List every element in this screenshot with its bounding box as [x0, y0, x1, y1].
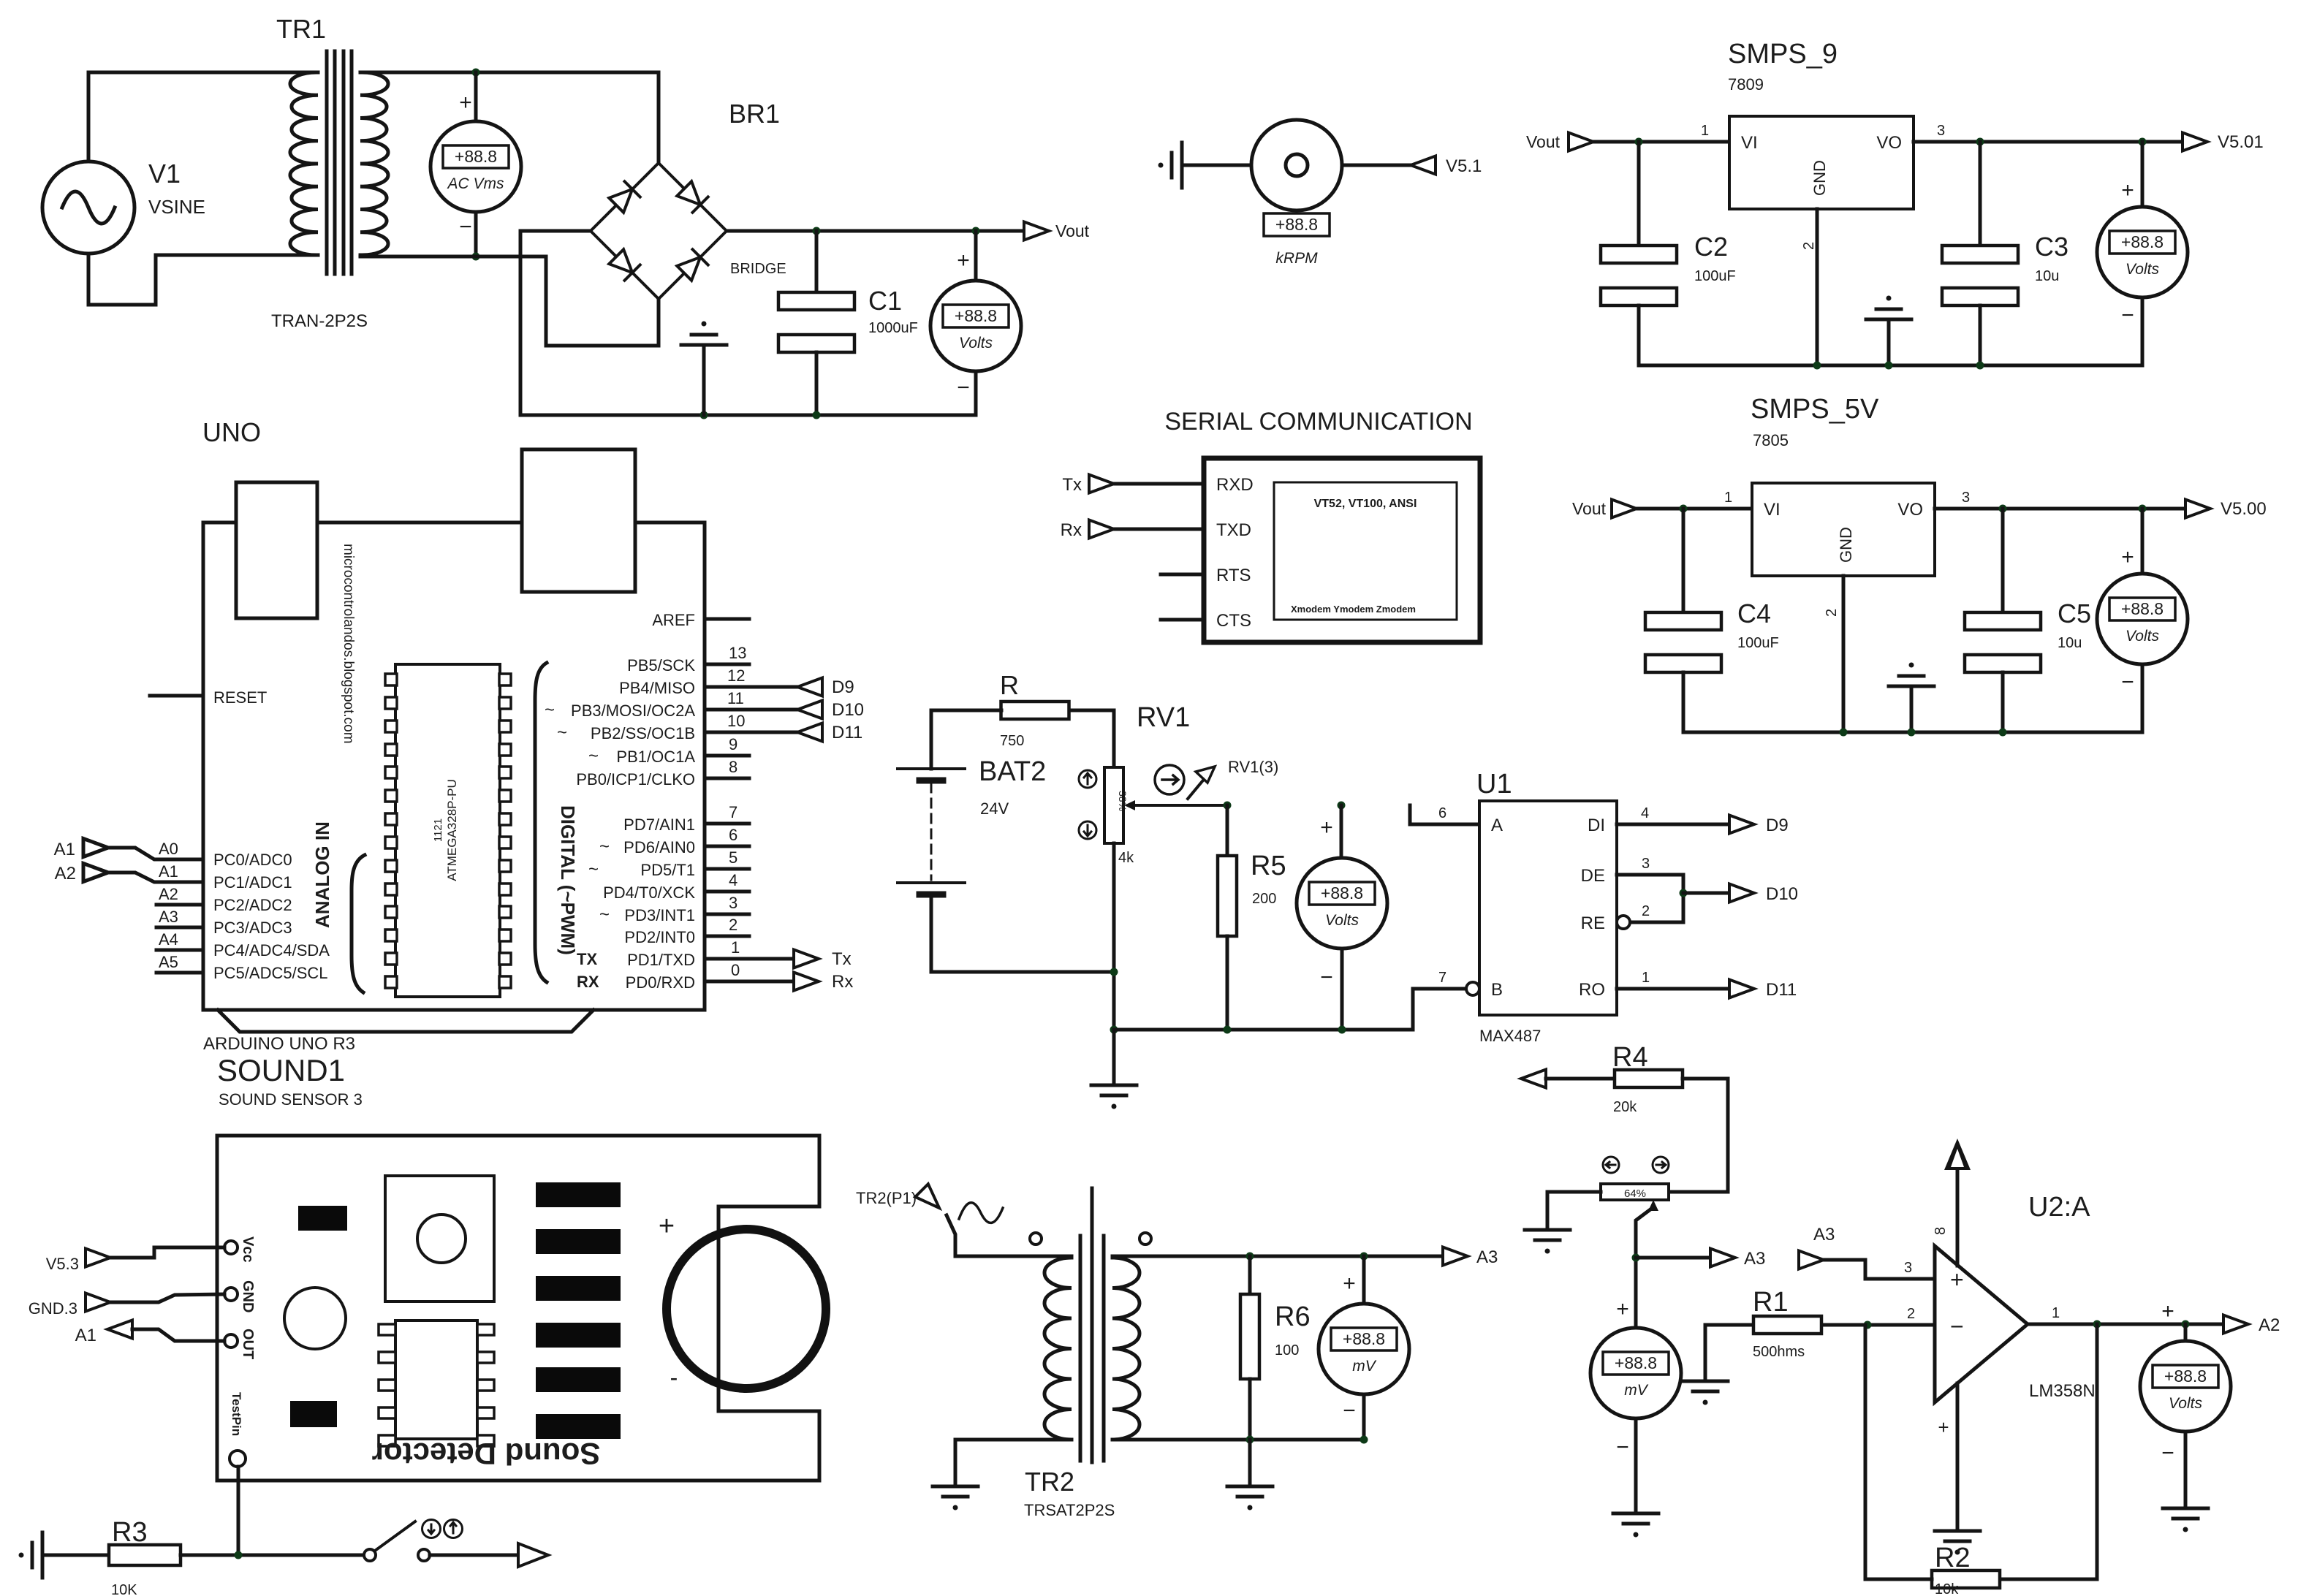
- wire wiper to mV meter: [1636, 1207, 1653, 1328]
- wire meter to rail: [2141, 297, 2145, 365]
- svg-text:PB4/MISO: PB4/MISO: [619, 679, 695, 697]
- svg-text:ARDUINO UNO R3: ARDUINO UNO R3: [203, 1034, 355, 1054]
- voltmeter Volts (R5): [1297, 858, 1387, 949]
- wire A2 terminal to PC1: [108, 873, 203, 882]
- junction wiper/meter: [1338, 802, 1346, 810]
- ground rail SMPS_9: [1639, 364, 2142, 368]
- svg-text:~: ~: [557, 723, 567, 742]
- svg-text:Volts: Volts: [959, 335, 993, 351]
- svg-text:4: 4: [1641, 805, 1649, 821]
- svg-text:+88.8: +88.8: [1321, 883, 1363, 902]
- wire RV1 bottom: [1112, 843, 1116, 1030]
- regulator 7805 box: [1752, 483, 1935, 576]
- svg-text:+88.8: +88.8: [1343, 1329, 1385, 1348]
- ground stem: [1910, 686, 1914, 732]
- svg-text:+: +: [1938, 1416, 1949, 1438]
- RV1 up adjust icon: [1079, 770, 1096, 788]
- wire pin 12: [705, 685, 797, 689]
- wire to mV meter: [1362, 1256, 1366, 1304]
- resistor R2: [1932, 1570, 2000, 1588]
- terminal D10: [797, 701, 822, 719]
- svg-text:R3: R3: [112, 1517, 148, 1548]
- svg-text:C1: C1: [868, 286, 902, 316]
- svg-text:PD2/INT0: PD2/INT0: [624, 928, 695, 946]
- svg-text:D10: D10: [1766, 884, 1798, 904]
- wire TR1 secondary bottom to bridge bottom: [360, 256, 659, 346]
- wire R4 to preset right: [1669, 1079, 1728, 1192]
- junction GND pin rail: [1813, 362, 1821, 370]
- wire RPM meter to V5.1: [1342, 164, 1411, 167]
- svg-text:V5.3: V5.3: [46, 1255, 79, 1273]
- svg-text:8: 8: [729, 758, 737, 776]
- svg-text:TXD: TXD: [1216, 520, 1251, 540]
- switch pole: [364, 1549, 376, 1561]
- TR2 secondary bottom rail: [1112, 1438, 1364, 1442]
- IC chip on board: [395, 1320, 477, 1439]
- svg-text:RX: RX: [577, 973, 599, 991]
- svg-text:VO: VO: [1897, 500, 1923, 520]
- junction secondary-bottom / AC meter: [472, 253, 480, 261]
- svg-text:6: 6: [1438, 805, 1446, 821]
- svg-text:750: 750: [1000, 733, 1024, 749]
- wire pin 1: [705, 957, 794, 961]
- wire C5 to rail: [2001, 672, 2005, 732]
- svg-text:+88.8: +88.8: [1615, 1353, 1657, 1372]
- junction C1 top: [813, 227, 821, 235]
- svg-text:C3: C3: [2035, 232, 2068, 262]
- preset potentiometer 64%: [1601, 1184, 1669, 1200]
- svg-text:7805: 7805: [1753, 431, 1789, 449]
- wire pin 0: [705, 980, 794, 984]
- capacitor C2: [1601, 246, 1677, 305]
- core line: [1102, 1236, 1106, 1461]
- svg-text:PD7/AIN1: PD7/AIN1: [623, 816, 695, 834]
- op-amp U2:A triangle: [1935, 1246, 2028, 1402]
- svg-text:SMPS_5V: SMPS_5V: [1751, 394, 1879, 425]
- svg-text:RXD: RXD: [1216, 475, 1254, 495]
- svg-text:ANALOG IN: ANALOG IN: [311, 821, 333, 928]
- svg-text:6: 6: [729, 826, 737, 844]
- svg-text:kRPM: kRPM: [1275, 250, 1318, 267]
- svg-text:U2:A: U2:A: [2028, 1192, 2090, 1223]
- probe RV1(3): [1155, 765, 1184, 794]
- battery BAT2: [898, 767, 965, 770]
- ground stem: [702, 345, 706, 415]
- svg-text:Rx: Rx: [1061, 520, 1082, 540]
- svg-text:PC1/ADC1: PC1/ADC1: [213, 873, 292, 892]
- terminal D9: [797, 678, 822, 696]
- junction GND pin rail: [1840, 729, 1848, 737]
- svg-text:Volts: Volts: [1325, 912, 1359, 929]
- svg-text:V1: V1: [148, 159, 181, 189]
- junction ground rail: [700, 411, 708, 419]
- svg-text:3: 3: [1642, 856, 1650, 872]
- resistor R4: [1615, 1070, 1683, 1087]
- svg-text:1: 1: [1642, 970, 1650, 986]
- switch adjust icons: [422, 1520, 441, 1538]
- speaker ring: [667, 1229, 826, 1388]
- svg-text:A0: A0: [159, 840, 178, 858]
- svg-text:PC5/ADC5/SCL: PC5/ADC5/SCL: [213, 964, 328, 982]
- terminal D10: [1729, 884, 1754, 902]
- junction BAT2/RV1: [1110, 968, 1118, 976]
- RV1 wiper: [1132, 804, 1227, 807]
- svg-text:PB1/OC1A: PB1/OC1A: [616, 748, 695, 766]
- wire R2 to pin 2: [1865, 1325, 1932, 1579]
- svg-text:+88.8: +88.8: [455, 147, 497, 166]
- ground rail SMPS_5V: [1683, 731, 2142, 734]
- AC voltmeter: [431, 121, 521, 212]
- svg-text:PD6/AIN0: PD6/AIN0: [623, 838, 695, 856]
- junction wiper/R5: [1224, 802, 1232, 810]
- resistor R1: [1753, 1316, 1821, 1334]
- wire GND.3 to GND: [110, 1294, 224, 1302]
- stub pin 4: [705, 890, 749, 894]
- terminal Rx: [1089, 520, 1114, 539]
- svg-text:AC Vms: AC Vms: [446, 175, 504, 192]
- svg-text:+: +: [2121, 178, 2134, 202]
- svg-text:~: ~: [599, 905, 610, 924]
- svg-text:−: −: [1343, 1399, 1356, 1423]
- wire AC voltmeter to secondary bottom: [474, 212, 478, 256]
- stub pin 9: [705, 754, 749, 758]
- svg-text:PC2/ADC2: PC2/ADC2: [213, 896, 292, 914]
- svg-text:3: 3: [1962, 490, 1970, 506]
- diode BR1 bottom-right: [677, 249, 708, 281]
- stub A4: [156, 949, 203, 952]
- diode BR1 bottom-left: [609, 249, 640, 281]
- svg-text:10: 10: [727, 712, 745, 730]
- ground (SMPS_5V): [1889, 663, 1934, 687]
- ground (op-amp): [1935, 1531, 1980, 1555]
- svg-text:VT52, VT100, ANSI: VT52, VT100, ANSI: [1314, 498, 1417, 510]
- svg-text:12: 12: [727, 666, 745, 685]
- svg-text:PB5/SCK: PB5/SCK: [627, 656, 695, 674]
- wire to Volts meter: [1340, 805, 1343, 858]
- wire switch to terminal: [430, 1554, 518, 1557]
- svg-text:+: +: [1616, 1297, 1629, 1321]
- svg-text:R1: R1: [1753, 1287, 1789, 1318]
- junction meter rail: [1338, 1026, 1346, 1034]
- ground (kRPM): [1159, 142, 1183, 188]
- wire TR2 primary bottom to ground: [955, 1440, 1072, 1486]
- svg-text:PD0/RXD: PD0/RXD: [626, 973, 695, 992]
- svg-text:+: +: [1343, 1272, 1356, 1296]
- bridge rectifier BR1: [591, 163, 727, 299]
- svg-text:+88.8: +88.8: [2121, 232, 2164, 251]
- voltage source V1 (VSINE): [42, 161, 134, 254]
- wire A3 to pin 3: [1824, 1260, 1935, 1279]
- stub pin 3: [705, 913, 749, 916]
- bracket DIGITAL: [535, 663, 547, 982]
- junction secondary-top / AC meter: [472, 69, 480, 77]
- potentiometer RV1 body: [1104, 767, 1123, 843]
- ground (R3): [19, 1532, 43, 1578]
- svg-text:Vout: Vout: [1572, 499, 1607, 518]
- terminal A3 (TR2): [1443, 1247, 1468, 1266]
- wire bridge left to ground rail: [520, 231, 976, 415]
- svg-text:0: 0: [731, 961, 740, 979]
- wire C3 to rail: [1979, 305, 1982, 365]
- svg-text:~: ~: [545, 700, 555, 720]
- svg-text:DI: DI: [1588, 816, 1605, 835]
- ground (preset): [1525, 1230, 1570, 1254]
- terminal Vout input SMPS_9: [1569, 133, 1593, 151]
- svg-text:TR2: TR2: [1025, 1467, 1074, 1497]
- svg-text:VSINE: VSINE: [148, 196, 205, 218]
- capacitor C5: [1965, 612, 2041, 672]
- svg-text:10k: 10k: [1935, 1581, 1959, 1596]
- svg-text:A3: A3: [1476, 1247, 1498, 1267]
- svg-text:ATMEGA328P-PU: ATMEGA328P-PU: [445, 779, 459, 881]
- svg-text:TestPin: TestPin: [230, 1392, 243, 1436]
- svg-text:C5: C5: [2058, 598, 2091, 628]
- wire R3 to switch: [181, 1554, 364, 1557]
- power jack box: [522, 449, 635, 592]
- preset wiper: [1648, 1200, 1658, 1211]
- terminal D11: [1729, 980, 1754, 998]
- wire A1 to OUT: [132, 1329, 224, 1341]
- resistor R: [1001, 702, 1069, 719]
- svg-text:1121: 1121: [432, 818, 444, 842]
- phase dot primary: [1030, 1233, 1042, 1244]
- sine squiggle: [959, 1203, 1003, 1223]
- stub pin 2: [705, 935, 749, 938]
- svg-text:R4: R4: [1612, 1042, 1648, 1073]
- svg-text:D11: D11: [1766, 980, 1797, 1000]
- svg-text:−: −: [957, 376, 970, 400]
- wire to Volts meter: [2184, 1324, 2188, 1341]
- stub AREF: [705, 617, 749, 621]
- transformer TR2 secondary coil: [1112, 1258, 1139, 1440]
- svg-text:PD1/TXD: PD1/TXD: [627, 951, 695, 969]
- svg-text:Volts: Volts: [2126, 261, 2159, 278]
- svg-text:PC0/ADC0: PC0/ADC0: [213, 851, 292, 869]
- svg-text:Vcc: Vcc: [240, 1236, 256, 1263]
- svg-text:+: +: [1950, 1266, 1964, 1293]
- svg-text:Rx: Rx: [832, 972, 853, 992]
- svg-text:PB0/ICP1/CLKO: PB0/ICP1/CLKO: [576, 770, 695, 788]
- wire C2 to rail: [1637, 305, 1641, 365]
- junction meter bottom: [1360, 1436, 1368, 1444]
- wire meter to rail: [2141, 664, 2145, 732]
- wire TR1 secondary top to bridge: [360, 72, 659, 163]
- terminal Rx: [794, 973, 819, 991]
- svg-text:TR1: TR1: [276, 14, 326, 44]
- junction mV meter top: [1360, 1253, 1368, 1261]
- wire ground to R3: [42, 1554, 109, 1557]
- svg-text:D11: D11: [832, 723, 862, 742]
- svg-text:PD5/T1: PD5/T1: [640, 861, 695, 879]
- svg-text:SOUND1: SOUND1: [217, 1053, 345, 1087]
- junction C3 rail: [1976, 362, 1984, 370]
- svg-text:−: −: [2121, 670, 2134, 694]
- svg-text:RV1: RV1: [1137, 702, 1190, 733]
- svg-text:−: −: [1950, 1313, 1964, 1339]
- svg-text:B: B: [1491, 980, 1503, 1000]
- ground (TR2 primary): [933, 1486, 978, 1510]
- svg-text:RE: RE: [1581, 913, 1605, 933]
- brace under UNO: [218, 1010, 594, 1032]
- svg-text:GND: GND: [1837, 527, 1855, 563]
- svg-text:24V: 24V: [980, 799, 1009, 818]
- transformer TR2 primary coil: [1044, 1258, 1072, 1440]
- svg-text:PD3/INT1: PD3/INT1: [624, 906, 695, 924]
- switch lever: [375, 1521, 415, 1551]
- svg-text:100uF: 100uF: [1694, 268, 1736, 284]
- terminal D9: [1729, 816, 1754, 834]
- board pin circles: [224, 1241, 238, 1254]
- ground stem: [1248, 1440, 1252, 1486]
- svg-text:~: ~: [588, 746, 599, 766]
- svg-text:RV1(3): RV1(3): [1228, 758, 1278, 776]
- bottom rail middle section: [1114, 1028, 1413, 1032]
- wire input to 7809 VI: [1593, 140, 1729, 144]
- U1 pin RE bubble: [1617, 916, 1630, 929]
- wire C4 to rail: [1682, 672, 1685, 732]
- ground (RV1): [1091, 1085, 1137, 1109]
- svg-text:+: +: [957, 248, 970, 273]
- junction R1/R2: [1864, 1321, 1872, 1329]
- junction C2 top: [1635, 138, 1643, 146]
- ground (Volts meter): [2163, 1508, 2208, 1532]
- terminal Vout: [1024, 222, 1049, 240]
- svg-text:V5.00: V5.00: [2221, 499, 2267, 519]
- svg-text:TX: TX: [577, 950, 597, 968]
- svg-text:~: ~: [599, 837, 610, 856]
- svg-text:D10: D10: [832, 700, 864, 720]
- terminal A3 (out): [1710, 1249, 1735, 1267]
- svg-text:LM358N: LM358N: [2029, 1381, 2096, 1401]
- svg-text:MAX487: MAX487: [1479, 1027, 1541, 1045]
- junction C1 bottom: [813, 411, 821, 419]
- svg-text:A1: A1: [54, 840, 75, 859]
- wire R to RV1: [1069, 710, 1114, 767]
- stub RTS: [1161, 573, 1204, 577]
- junction DE/RE to D10: [1680, 889, 1688, 897]
- svg-text:64%: 64%: [1624, 1187, 1646, 1200]
- millivoltmeter mV (TR2): [1319, 1304, 1409, 1394]
- svg-text:A3: A3: [1813, 1225, 1835, 1244]
- wire R1 to ground: [1705, 1325, 1753, 1381]
- wire RO to D11: [1617, 987, 1729, 991]
- svg-text:R6: R6: [1275, 1301, 1311, 1332]
- svg-text:100uF: 100uF: [1737, 635, 1779, 651]
- terminal V5.3: [86, 1249, 110, 1267]
- wire Tx to RXD: [1114, 482, 1204, 486]
- transformer TR1 secondary coil: [360, 72, 388, 255]
- ATMEGA328P chip body: [395, 664, 500, 997]
- stub A5: [156, 971, 203, 975]
- svg-text:−: −: [1616, 1435, 1629, 1459]
- USB connector box: [236, 482, 317, 618]
- wire to C1: [815, 231, 819, 292]
- svg-text:A3: A3: [159, 908, 178, 926]
- core line: [1091, 1188, 1094, 1462]
- board black pad top-left: [298, 1206, 347, 1231]
- svg-text:1000uF: 1000uF: [868, 320, 918, 336]
- wire preset left to ground: [1547, 1192, 1601, 1230]
- wire to Volts meter: [2141, 509, 2145, 574]
- ground (R6): [1227, 1486, 1273, 1510]
- svg-text:RTS: RTS: [1216, 566, 1251, 585]
- svg-text:1: 1: [1701, 123, 1709, 139]
- svg-text:TRSAT2P2S: TRSAT2P2S: [1024, 1501, 1115, 1519]
- terminal (R4 left): [1521, 1070, 1546, 1088]
- svg-text:Tx: Tx: [832, 949, 852, 969]
- svg-text:PC3/ADC3: PC3/ADC3: [213, 919, 292, 937]
- svg-text:4k: 4k: [1118, 850, 1134, 866]
- RV1 down adjust icon: [1079, 821, 1096, 839]
- voltmeter Volts (SMPS_9): [2097, 207, 2188, 297]
- svg-text:20k: 20k: [1613, 1099, 1637, 1115]
- svg-text:10u: 10u: [2035, 268, 2059, 284]
- svg-text:Vout: Vout: [1055, 221, 1090, 240]
- svg-text:mV: mV: [1624, 1382, 1648, 1399]
- terminal A1 (to PC0): [83, 839, 108, 857]
- wire pin 11: [705, 708, 797, 712]
- terminal Tx: [794, 950, 819, 968]
- terminal A2: [2223, 1315, 2248, 1334]
- preset right adjust icon: [1653, 1157, 1669, 1173]
- wire VO to V5.00: [1935, 507, 2185, 511]
- svg-text:+: +: [659, 1211, 675, 1242]
- diode BR1 top-left: [609, 181, 640, 213]
- svg-text:38%: 38%: [1117, 791, 1129, 811]
- wire C1 to rail: [815, 352, 819, 415]
- svg-text:SERIAL COMMUNICATION: SERIAL COMMUNICATION: [1164, 408, 1472, 436]
- wire bridge output to Vout: [727, 229, 1024, 233]
- junction Volts meter top (SMPS_5V): [2139, 505, 2147, 513]
- virtual terminal box: [1204, 458, 1480, 642]
- svg-text:1: 1: [731, 938, 740, 957]
- svg-text:BR1: BR1: [729, 99, 780, 129]
- wire to Volts meter: [974, 231, 978, 281]
- svg-text:+88.8: +88.8: [955, 306, 997, 325]
- terminal A1: [107, 1320, 132, 1339]
- ground stem: [1887, 319, 1891, 365]
- RPM meter SMPS motor symbol: [1251, 120, 1342, 210]
- terminal V5.01: [2183, 133, 2207, 151]
- svg-text:RO: RO: [1579, 980, 1605, 1000]
- svg-text:R5: R5: [1251, 851, 1286, 881]
- U1 pin B bubble: [1466, 982, 1479, 995]
- svg-text:SOUND SENSOR 3: SOUND SENSOR 3: [219, 1090, 363, 1109]
- svg-text:A1: A1: [159, 862, 178, 881]
- svg-text:3: 3: [1937, 123, 1945, 139]
- svg-text:+: +: [459, 91, 472, 115]
- terminal D11: [797, 723, 822, 742]
- terminal GND.3: [86, 1293, 110, 1312]
- svg-text:A2: A2: [55, 864, 76, 883]
- svg-text:+88.8: +88.8: [2164, 1367, 2207, 1386]
- ground (SMPS_9): [1866, 296, 1911, 320]
- junction C5 top: [1999, 505, 2007, 513]
- svg-text:GND: GND: [1810, 160, 1829, 196]
- svg-text:+: +: [2121, 545, 2134, 569]
- wire meter to rail: [1362, 1394, 1366, 1440]
- svg-text:D9: D9: [1766, 816, 1789, 835]
- svg-text:TR2(P1): TR2(P1): [856, 1189, 917, 1207]
- svg-text:−: −: [2161, 1441, 2174, 1465]
- svg-text:8: 8: [1933, 1227, 1949, 1235]
- wire wiper to U1 pin A: [1410, 805, 1479, 824]
- svg-text:OUT: OUT: [240, 1329, 256, 1359]
- junction ground rail: [1908, 729, 1916, 737]
- resistor R5: [1218, 856, 1237, 936]
- wire to C4: [1682, 509, 1685, 612]
- svg-text:−: −: [2121, 303, 2134, 327]
